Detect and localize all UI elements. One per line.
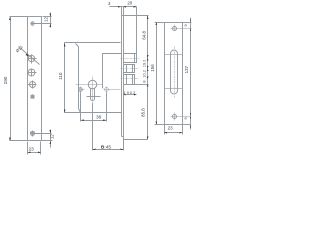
slot bottom arch xyxy=(171,91,178,95)
dim 3 arrows (outside pair) xyxy=(118,6,121,8)
svg-text:9: 9 xyxy=(183,24,188,27)
strike plate outline xyxy=(165,23,183,125)
svg-text:85.8: 85.8 xyxy=(141,108,146,117)
64.8 reference line xyxy=(124,15,149,17)
dim 156 line xyxy=(156,23,158,125)
dim 12 arrows (outside) xyxy=(50,14,52,18)
screw hole small (cross pattern) xyxy=(31,95,34,98)
slot centerline xyxy=(174,47,176,99)
screw horizontal tick + extension to dim 12 xyxy=(31,23,52,25)
svg-text:12: 12 xyxy=(43,17,48,22)
slot sides xyxy=(170,54,172,91)
plate top extension right xyxy=(183,22,192,24)
svg-text:8: 8 xyxy=(143,81,147,83)
faceplate outline xyxy=(28,17,42,141)
faceplate edge double line xyxy=(121,7,123,137)
dim 156 extensions xyxy=(155,22,165,24)
leader line Ø12 xyxy=(19,47,40,65)
dim 23 strike extensions xyxy=(164,125,166,135)
slot cross line xyxy=(87,96,101,98)
svg-text:137: 137 xyxy=(184,65,189,73)
keyhole centerline extension down xyxy=(92,103,94,151)
fold line lower xyxy=(165,88,183,90)
screw hole bottom (cross pattern) xyxy=(31,132,35,136)
keyhole vertical centerline xyxy=(92,77,94,102)
dim 190 extension bottom / plate bottom extended xyxy=(10,140,53,142)
fixing screw left xyxy=(79,88,83,92)
dim 38 extensions xyxy=(80,93,82,122)
dim 190 arrow top xyxy=(9,17,11,20)
chain corner horizontal xyxy=(124,139,148,141)
case bottom-left chamfer xyxy=(79,109,81,113)
deadbolt xyxy=(124,75,135,85)
fold line upper xyxy=(165,54,183,56)
svg-text:190: 190 xyxy=(3,76,8,84)
tiny dim line under label xyxy=(124,94,137,96)
cylinder horizontal centerline xyxy=(76,84,103,86)
dim 190 line xyxy=(10,17,12,141)
dim 110 line xyxy=(64,43,66,113)
middle bolt xyxy=(124,65,135,73)
dim 12 top: extension from plate top xyxy=(43,16,52,18)
dim 12 top line xyxy=(50,13,52,28)
dim 190 extension top xyxy=(10,16,28,18)
fixing screw right xyxy=(105,88,109,92)
faceplate bottom cap xyxy=(122,136,124,138)
faceplate top cap xyxy=(122,15,124,17)
extension from bottom screw to dim 12 xyxy=(31,133,52,135)
svg-text:20: 20 xyxy=(127,1,132,6)
dim 23 strike line xyxy=(165,132,183,134)
chain arrows xyxy=(147,16,149,20)
latch bolt xyxy=(124,54,137,63)
deadbolt bottom extension to chain dim xyxy=(135,84,149,86)
svg-text:12: 12 xyxy=(49,134,54,139)
dim 190 arrow bottom xyxy=(9,138,11,142)
svg-text:23: 23 xyxy=(29,147,35,152)
case top edge + 110 extension xyxy=(65,42,121,44)
dim 137 / 9 shared line xyxy=(190,18,192,130)
dim 38 line xyxy=(81,120,107,122)
cylinder hole xyxy=(28,69,35,76)
screw hole mid (crosshair) xyxy=(30,82,36,88)
svg-text:156: 156 xyxy=(150,64,155,72)
dim 20 right arrow xyxy=(134,6,137,8)
dim 23 line xyxy=(28,152,41,154)
screw hole top (cross pattern) xyxy=(31,22,34,25)
svg-text:23: 23 xyxy=(168,125,174,130)
cylinder slot xyxy=(91,89,95,101)
svg-text:19.2: 19.2 xyxy=(143,60,147,67)
strike screw bottom xyxy=(173,115,177,119)
extension latch tip xyxy=(136,7,138,54)
chain dim vertical line xyxy=(147,16,149,140)
case left edge xyxy=(78,47,80,109)
dim B45 line xyxy=(93,149,124,151)
case top-left chamfer xyxy=(76,44,79,47)
dim B45 extension right xyxy=(123,137,125,151)
svg-text:9: 9 xyxy=(183,117,188,120)
handle hole xyxy=(28,55,34,61)
euro cylinder circle xyxy=(88,80,97,89)
top dim line 3 / 20 xyxy=(110,6,137,8)
svg-text:B:45: B:45 xyxy=(101,144,111,150)
svg-text:10.2: 10.2 xyxy=(143,70,147,77)
strike screw top xyxy=(173,27,177,31)
slot top arch xyxy=(171,50,178,53)
svg-text:38: 38 xyxy=(96,115,102,120)
svg-text:Ø12: Ø12 xyxy=(15,44,24,53)
dim 12 bottom line xyxy=(50,130,52,148)
svg-text:3: 3 xyxy=(108,1,111,6)
internal mechanism box xyxy=(103,54,122,89)
case bottom edge + 110 extension xyxy=(65,112,122,114)
plate bottom extension right xyxy=(183,124,191,126)
svg-text:110: 110 xyxy=(58,72,63,80)
dim 23 extensions xyxy=(27,142,29,155)
svg-text:64.8: 64.8 xyxy=(142,30,147,39)
